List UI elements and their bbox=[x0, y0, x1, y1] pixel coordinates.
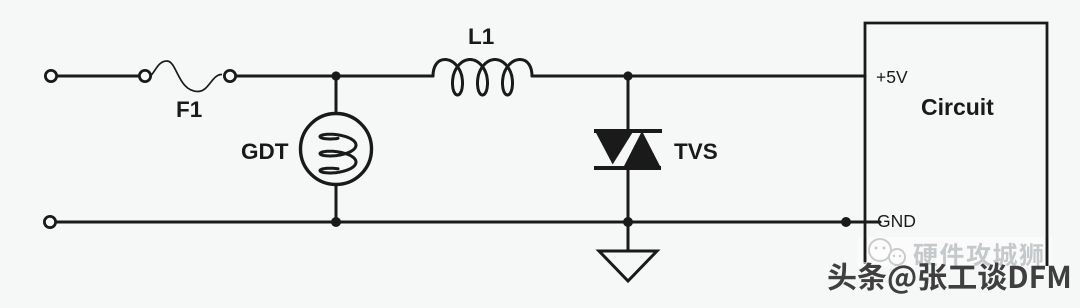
svg-text:Circuit: Circuit bbox=[921, 94, 994, 120]
svg-text:TVS: TVS bbox=[674, 139, 718, 164]
svg-text:F1: F1 bbox=[176, 97, 202, 122]
svg-text:GND: GND bbox=[877, 211, 916, 231]
svg-text:L1: L1 bbox=[468, 24, 494, 49]
svg-text:+5V: +5V bbox=[876, 67, 908, 87]
svg-text:GDT: GDT bbox=[241, 139, 289, 164]
